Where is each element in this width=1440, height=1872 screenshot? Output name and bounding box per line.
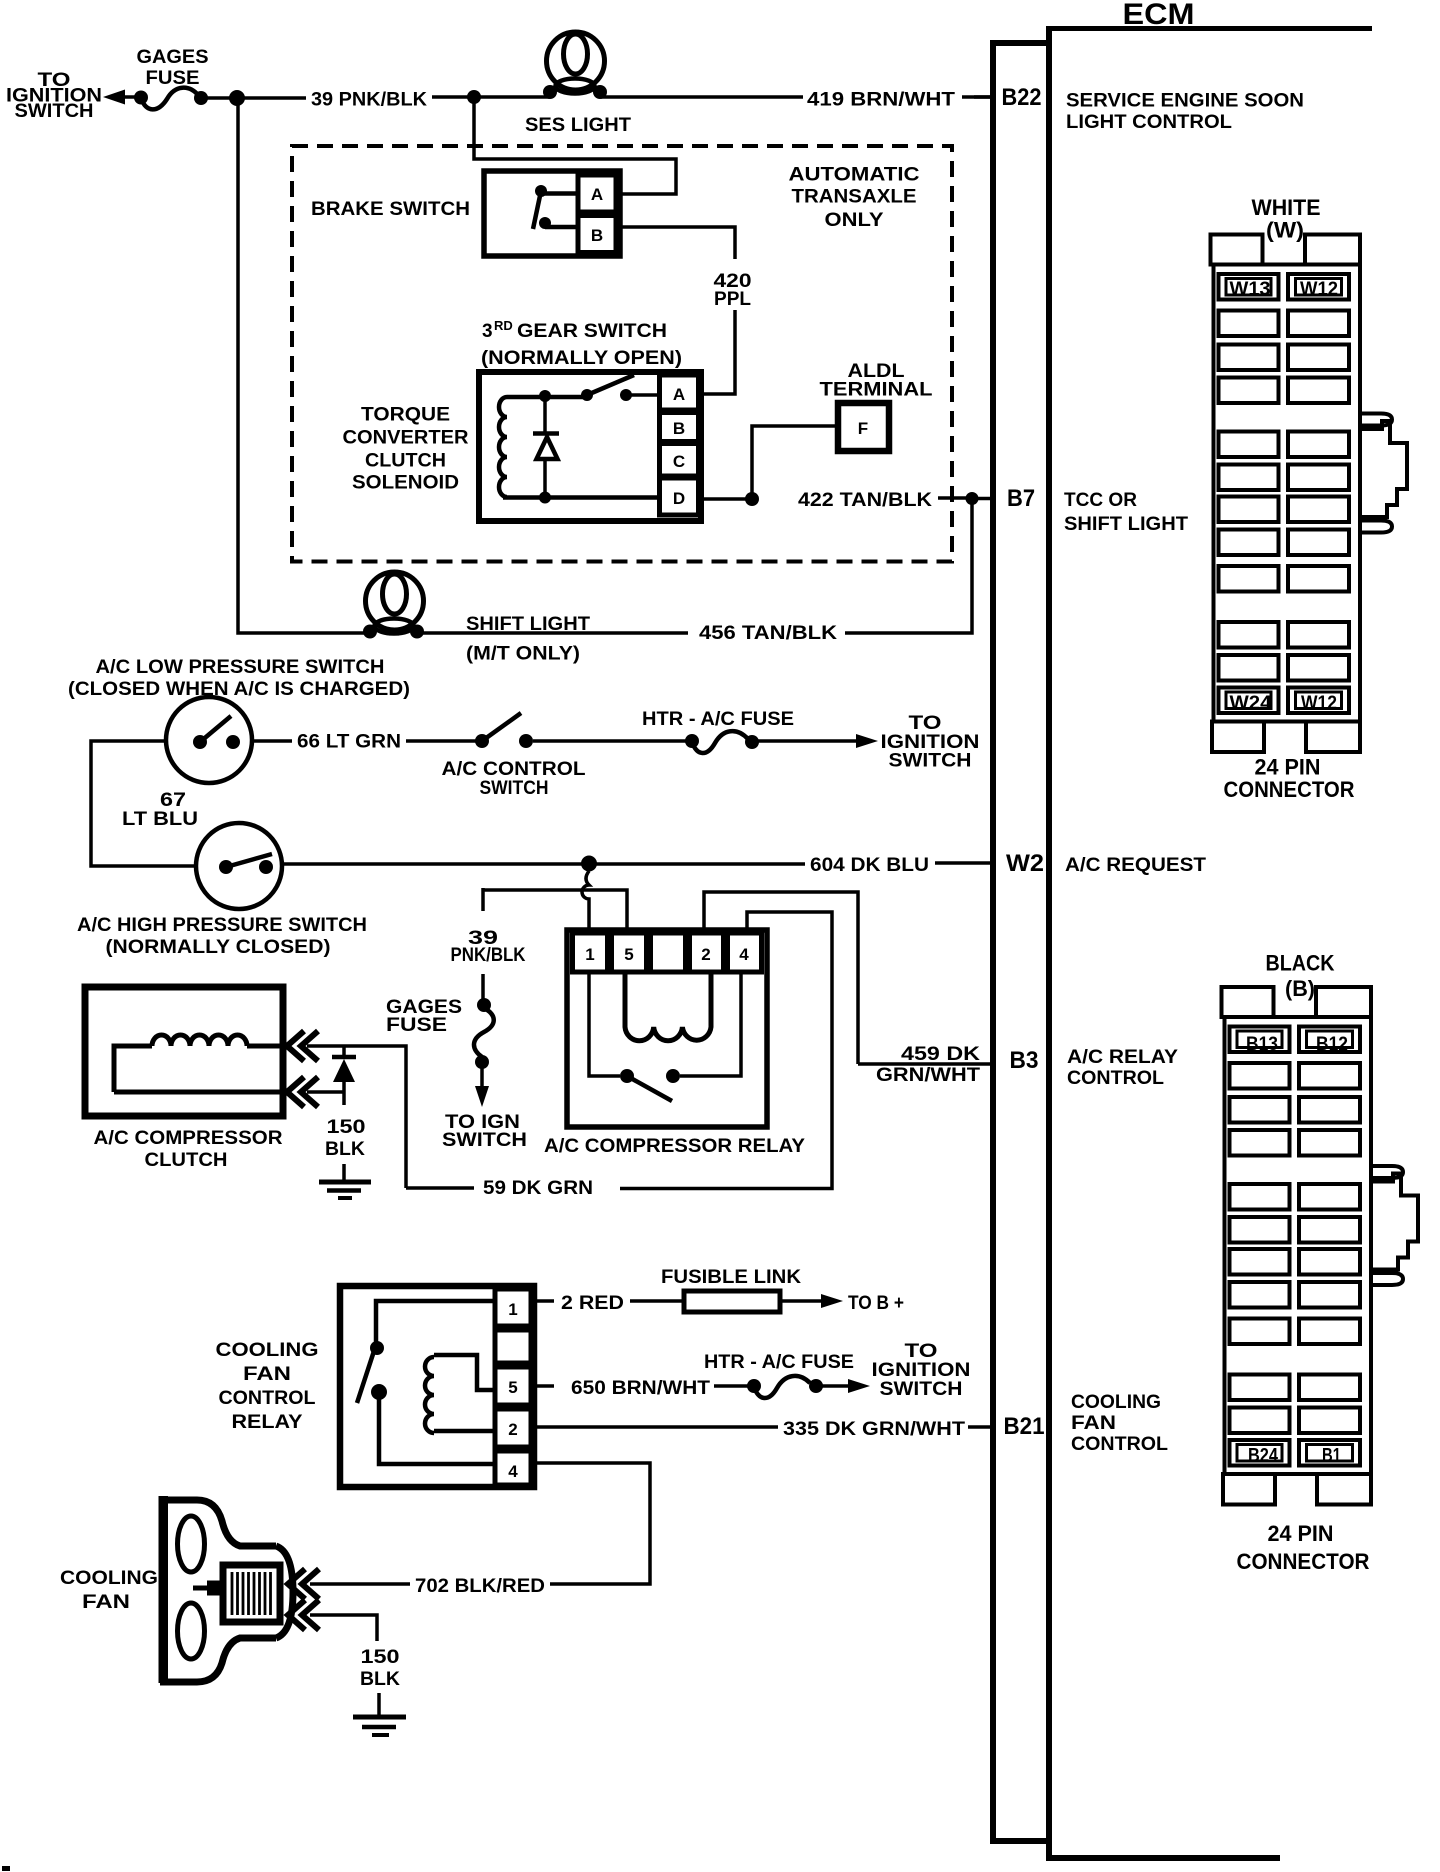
labeled cavity inner boxes [1226, 279, 1342, 709]
pin B (solenoid) [660, 413, 699, 442]
svg-text:A: A [673, 385, 685, 404]
connector arrows (clutch lower) [287, 1077, 318, 1107]
svg-text:PPL: PPL [714, 289, 751, 310]
svg-text:39 PNK/BLK: 39 PNK/BLK [311, 90, 427, 111]
ECM box left edge [1046, 26, 1052, 1858]
wire 702 BLK/RED from relay pin 4 [534, 1463, 650, 1584]
fuse GAGES (lower symbol) [477, 998, 491, 1012]
dashed box AUTOMATIC TRANSAXLE ONLY [292, 146, 952, 562]
svg-text:A/C COMPRESSOR RELAY: A/C COMPRESSOR RELAY [544, 1136, 805, 1157]
A/C low pressure switch [166, 697, 252, 783]
svg-text:LT BLU: LT BLU [122, 809, 198, 830]
svg-text:BLK: BLK [360, 1669, 400, 1690]
pin 5 (fan relay) [495, 1367, 531, 1405]
fuse GAGES FUSE (symbol) [134, 91, 148, 105]
svg-text:GRN/WHT: GRN/WHT [876, 1065, 980, 1086]
wire and arrowhead to ignition switch (fan row) [822, 1384, 848, 1388]
svg-text:419 BRN/WHT: 419 BRN/WHT [807, 90, 955, 111]
svg-text:ONLY: ONLY [825, 210, 884, 231]
svg-text:CONTROL: CONTROL [219, 1388, 316, 1409]
svg-text:702 BLK/RED: 702 BLK/RED [415, 1576, 545, 1597]
connector shell [1214, 265, 1361, 722]
wire and arrowhead to ign switch (lower) [480, 1068, 484, 1089]
pin A (solenoid) [660, 375, 699, 410]
A/C control switch [475, 713, 533, 748]
pin C (solenoid) [660, 444, 699, 477]
svg-text:TO: TO [909, 713, 942, 734]
svg-text:A/C HIGH PRESSURE SWITCH: A/C HIGH PRESSURE SWITCH [77, 915, 367, 936]
svg-text:150: 150 [361, 1647, 400, 1668]
svg-text:B24: B24 [1248, 1446, 1278, 1467]
white 24 pin connector body [1211, 235, 1408, 753]
wire from junction down to shift light [238, 98, 366, 633]
svg-text:SWITCH: SWITCH [480, 778, 549, 799]
wire 604 DK BLU [282, 862, 805, 866]
junction dot (diode to bottom wire) [539, 492, 551, 504]
wire 422 TAN/BLK from pin D [701, 497, 746, 501]
fuse HTR-A/C (fan row symbol) [747, 1379, 761, 1393]
wire 39 PNK/BLK down branch (lower segment) [481, 974, 485, 1002]
svg-text:FAN: FAN [243, 1364, 291, 1385]
svg-text:SWITCH: SWITCH [880, 1379, 963, 1400]
svg-text:W2: W2 [1006, 850, 1044, 877]
svg-text:335 DK GRN/WHT: 335 DK GRN/WHT [783, 1419, 965, 1440]
fan blade (lower) [178, 1603, 205, 1659]
svg-text:422 TAN/BLK: 422 TAN/BLK [798, 490, 932, 511]
diode (clutch suppression) [332, 1047, 356, 1105]
clutch lower lead [114, 1090, 284, 1095]
wire from 604 junction to relay pin 1 (with crossover hop) [582, 871, 589, 931]
fuse HTR-A/C (symbol) [685, 734, 699, 748]
wire 39 PNK/BLK (left segment) [201, 96, 306, 100]
svg-text:(NORMALLY CLOSED): (NORMALLY CLOSED) [106, 937, 331, 958]
wire to ignition switch (A/C row) [758, 739, 856, 743]
solenoid bottom wire [503, 495, 661, 500]
ALDL terminal box [838, 403, 889, 451]
wire 456 TAN/BLK (right segment up to 422 node) [845, 503, 972, 633]
svg-text:IGNITION: IGNITION [872, 1360, 971, 1381]
svg-text:(W): (W) [1266, 218, 1304, 243]
svg-text:B12: B12 [1316, 1034, 1348, 1055]
svg-text:150: 150 [327, 1117, 366, 1138]
wire 59 DK GRN (left segment) [406, 1186, 474, 1190]
fan blade (upper) [178, 1516, 205, 1572]
pin B (brake switch) [578, 216, 616, 253]
svg-text:HTR - A/C FUSE: HTR - A/C FUSE [704, 1352, 854, 1373]
connector keying lug (bottom prong) [1360, 521, 1392, 533]
svg-text:A/C COMPRESSOR: A/C COMPRESSOR [94, 1128, 283, 1149]
svg-text:2: 2 [701, 945, 710, 964]
svg-text:59 DK GRN: 59 DK GRN [483, 1178, 593, 1199]
svg-text:C: C [673, 452, 685, 471]
svg-text:B7: B7 [1007, 485, 1035, 512]
pin 4 (fan relay) [495, 1451, 531, 1485]
fan relay switch [357, 1301, 495, 1464]
connector top tabs [1211, 235, 1263, 265]
svg-text:COOLING: COOLING [1071, 1392, 1161, 1413]
svg-text:FAN: FAN [82, 1592, 130, 1613]
wire 2 RED tick [534, 1299, 554, 1303]
ECM box top edge [1046, 26, 1372, 31]
fan relay coil [425, 1355, 495, 1433]
connector keying lug (top prong) [1360, 414, 1392, 426]
wire to HTR-A/C fuse (fan row) [714, 1384, 754, 1388]
clutch coil [152, 1035, 247, 1046]
wire clutch lower terminal [307, 1090, 344, 1094]
fusible link [684, 1291, 780, 1312]
connector bottom tabs [1212, 722, 1264, 753]
ECM pin rail (vertical bus) [990, 43, 996, 1838]
blank pin slot (A/C relay) [651, 933, 686, 972]
svg-text:GEAR SWITCH: GEAR SWITCH [517, 321, 667, 342]
wire 419 BRN/WHT [601, 95, 803, 99]
stray mark (bottom left) [2, 1866, 10, 1871]
svg-text:BLK: BLK [325, 1139, 365, 1160]
wire 67 LT BLU [91, 741, 196, 866]
svg-text:TERMINAL: TERMINAL [820, 380, 933, 401]
cooling fan housing [159, 1496, 294, 1683]
svg-text:(NORMALLY OPEN): (NORMALLY OPEN) [481, 348, 682, 369]
svg-text:W12: W12 [1301, 693, 1337, 714]
svg-text:FUSE: FUSE [386, 1015, 447, 1036]
pin 1 (A/C relay) [573, 933, 608, 972]
black 24 pin connector body [1222, 987, 1419, 1505]
A/C compressor clutch box [85, 987, 283, 1116]
wire 604 DK BLU tick to ECM W2 [935, 861, 991, 865]
svg-text:4: 4 [508, 1462, 518, 1481]
wire to ignition switch [118, 95, 141, 99]
diode (solenoid suppression) [533, 396, 559, 497]
wire fan ground lead [310, 1615, 377, 1641]
wire 420 PPL [620, 227, 735, 259]
connector keying lug (middle tab) [1362, 421, 1407, 517]
svg-text:456 TAN/BLK: 456 TAN/BLK [699, 623, 837, 644]
junction dot (brake switch feed) [467, 90, 481, 104]
ground (fan 150 BLK) [353, 1693, 406, 1735]
connector arrows (clutch upper) [287, 1031, 318, 1061]
svg-text:B21: B21 [1004, 1413, 1045, 1440]
clutch coil left lead [114, 1046, 152, 1092]
svg-text:PNK/BLK: PNK/BLK [451, 945, 526, 966]
svg-text:SERVICE ENGINE SOON: SERVICE ENGINE SOON [1066, 91, 1304, 112]
svg-text:A/C CONTROL: A/C CONTROL [442, 759, 586, 780]
svg-text:604 DK BLU: 604 DK BLU [810, 855, 929, 876]
svg-text:LIGHT CONTROL: LIGHT CONTROL [1066, 112, 1232, 133]
cooling fan control relay box [340, 1286, 534, 1487]
svg-text:GAGES: GAGES [137, 47, 209, 68]
svg-text:66 LT GRN: 66 LT GRN [297, 732, 401, 753]
wire 419 BRN/WHT tick to ECM B22 [962, 95, 992, 99]
pin 4 (A/C relay) [728, 933, 762, 972]
svg-text:FAN: FAN [1071, 1413, 1116, 1434]
svg-text:A: A [591, 185, 603, 204]
pin D (solenoid) [660, 478, 699, 515]
wire 39 PNK/BLK branch to relay pin 5 [483, 890, 627, 931]
wire 39 PNK/BLK down branch (upper segment) [481, 888, 485, 911]
svg-text:2 RED: 2 RED [561, 1293, 624, 1314]
svg-text:3: 3 [482, 321, 493, 342]
svg-text:SWITCH: SWITCH [442, 1130, 527, 1151]
svg-text:B1: B1 [1322, 1446, 1341, 1467]
svg-text:67: 67 [160, 790, 186, 811]
svg-text:SWITCH: SWITCH [889, 751, 972, 772]
svg-text:CLUTCH: CLUTCH [145, 1150, 228, 1171]
svg-text:CONTROL: CONTROL [1071, 1434, 1168, 1455]
wire 335 DK GRN/WHT tick to ECM B21 [968, 1425, 991, 1429]
brake switch contacts and lever [533, 185, 578, 229]
svg-text:RD: RD [494, 318, 513, 333]
svg-text:HTR - A/C FUSE: HTR - A/C FUSE [642, 709, 794, 730]
wire and arrowhead to B+ [780, 1299, 822, 1303]
A/C relay coil [625, 972, 711, 1041]
lamp SHIFT LIGHT [363, 572, 424, 639]
svg-text:CLUTCH: CLUTCH [365, 451, 446, 472]
arrowhead to ignition switch [103, 90, 125, 105]
brake switch box [484, 171, 620, 256]
svg-text:SHIFT LIGHT: SHIFT LIGHT [1064, 514, 1188, 535]
wire 422 TAN/BLK right segment [938, 496, 966, 500]
svg-text:W24: W24 [1230, 693, 1272, 714]
svg-text:RELAY: RELAY [232, 1412, 303, 1433]
svg-text:2: 2 [508, 1420, 517, 1439]
clutch upper lead [247, 1044, 284, 1049]
svg-text:650 BRN/WHT: 650 BRN/WHT [571, 1378, 710, 1399]
ECM pin rail bottom link [990, 1838, 1049, 1844]
pin cavities left column [1219, 274, 1279, 713]
svg-text:TO B +: TO B + [848, 1293, 904, 1314]
svg-text:SWITCH: SWITCH [15, 101, 94, 122]
junction dot (422/456 node) [966, 492, 979, 505]
svg-text:CONNECTOR: CONNECTOR [1237, 1549, 1370, 1574]
lamp SES LIGHT [543, 32, 607, 99]
svg-text:(CLOSED WHEN A/C IS CHARGED): (CLOSED WHEN A/C IS CHARGED) [68, 679, 410, 700]
svg-text:D: D [673, 489, 685, 508]
3rd gear switch contacts and lever [539, 375, 661, 402]
wire 459 DK GRN/WHT to ECM B3 [858, 1062, 991, 1066]
svg-text:A/C REQUEST: A/C REQUEST [1065, 855, 1206, 876]
svg-text:TRANSAXLE: TRANSAXLE [792, 187, 917, 208]
A/C relay switch [589, 972, 741, 1101]
wire 59 DK GRN (right segment to relay pin 4) [620, 912, 832, 1189]
svg-text:FUSE: FUSE [146, 68, 200, 89]
wire 422 TAN/BLK tick to ECM B7 [978, 497, 991, 501]
pin 1 (fan relay) [495, 1289, 531, 1326]
connector arrows (fan lower) [288, 1600, 319, 1630]
wire 66 LT GRN (left segment) [252, 739, 292, 743]
wire relay pin 2 to ECM B3 [704, 892, 858, 1064]
svg-text:W13: W13 [1230, 279, 1271, 300]
wire 650 BRN/WHT tick [534, 1384, 554, 1388]
svg-text:1: 1 [585, 945, 594, 964]
svg-text:(M/T ONLY): (M/T ONLY) [466, 644, 580, 665]
svg-text:1: 1 [508, 1300, 517, 1319]
pin A (brake switch) [578, 175, 616, 212]
fan axle and hub [193, 1586, 222, 1591]
svg-text:CONNECTOR: CONNECTOR [1224, 777, 1355, 802]
pin cavities right column [1288, 274, 1349, 713]
wire clutch upper terminal [307, 1046, 406, 1188]
svg-text:F: F [858, 419, 868, 438]
svg-text:TCC OR: TCC OR [1064, 490, 1137, 511]
svg-text:B: B [591, 226, 603, 245]
wire 66 LT GRN (right segment) [406, 739, 482, 743]
svg-text:5: 5 [508, 1378, 517, 1397]
wire 335 DK GRN/WHT [534, 1425, 778, 1429]
junction dot (422 TAN/BLK to ALDL) [745, 492, 759, 506]
svg-text:COOLING: COOLING [216, 1340, 319, 1361]
svg-text:WHITE: WHITE [1252, 195, 1321, 220]
wire 456 TAN/BLK (left segment) [421, 631, 688, 635]
wire 420 PPL lower segment [701, 310, 735, 394]
svg-text:24 PIN: 24 PIN [1268, 1521, 1334, 1546]
svg-text:A/C LOW PRESSURE SWITCH: A/C LOW PRESSURE SWITCH [96, 657, 385, 678]
solenoid top wire [507, 395, 587, 400]
solenoid coil [499, 397, 507, 497]
svg-text:SES LIGHT: SES LIGHT [525, 115, 631, 136]
arrowhead to ignition switch (A/C row) [856, 734, 878, 748]
svg-text:24 PIN: 24 PIN [1255, 755, 1321, 780]
svg-text:B13: B13 [1246, 1034, 1278, 1055]
svg-text:COOLING: COOLING [60, 1568, 158, 1589]
svg-text:CONTROL: CONTROL [1067, 1068, 1164, 1089]
torque converter clutch solenoid box [479, 372, 701, 521]
wire to HTR-A/C fuse [533, 739, 692, 743]
pin B22 tick [974, 95, 990, 99]
wire 39 PNK/BLK (right segment) [432, 95, 549, 99]
A/C high pressure switch [196, 823, 282, 909]
svg-text:CONVERTER: CONVERTER [343, 428, 469, 449]
svg-text:AUTOMATIC: AUTOMATIC [789, 165, 920, 186]
A/C compressor relay box [567, 930, 767, 1127]
pin 2 (fan relay) [495, 1409, 531, 1447]
svg-text:SOLENOID: SOLENOID [352, 473, 459, 494]
wire 702 BLK/RED (left segment) [310, 1582, 410, 1586]
svg-text:A/C RELAY: A/C RELAY [1067, 1047, 1178, 1068]
svg-text:BRAKE SWITCH: BRAKE SWITCH [311, 199, 470, 220]
svg-text:B: B [673, 419, 685, 438]
blank pin slot (fan relay) [495, 1330, 531, 1363]
wire ALDL terminal branch [752, 426, 838, 499]
svg-text:4: 4 [739, 945, 749, 964]
wire from 39 PNK/BLK junction to brake switch pin A [474, 97, 676, 194]
svg-text:W12: W12 [1300, 279, 1338, 300]
connector arrows (fan upper) [288, 1569, 319, 1599]
svg-text:(B): (B) [1285, 976, 1315, 1001]
svg-text:FUSIBLE LINK: FUSIBLE LINK [661, 1267, 801, 1288]
ECM box bottom edge [1046, 1855, 1280, 1861]
ground (clutch 150 BLK) [319, 1164, 371, 1198]
ECM pin rail top link [990, 40, 1049, 46]
svg-text:TO: TO [905, 1341, 938, 1362]
pin 2 (A/C relay) [690, 933, 724, 972]
svg-text:TORQUE: TORQUE [361, 405, 450, 426]
svg-text:459 DK: 459 DK [901, 1044, 980, 1065]
svg-text:B22: B22 [1002, 84, 1042, 111]
svg-text:5: 5 [624, 945, 633, 964]
svg-text:BLACK: BLACK [1266, 951, 1335, 976]
fan motor [223, 1565, 280, 1622]
svg-text:B3: B3 [1010, 1047, 1039, 1074]
junction dot (604 DK BLU to relay) [581, 856, 597, 872]
wire to fusible link [630, 1299, 684, 1303]
junction dot (39 PNK/BLK split) [229, 90, 245, 106]
pin 5 (A/C relay) [612, 933, 647, 972]
